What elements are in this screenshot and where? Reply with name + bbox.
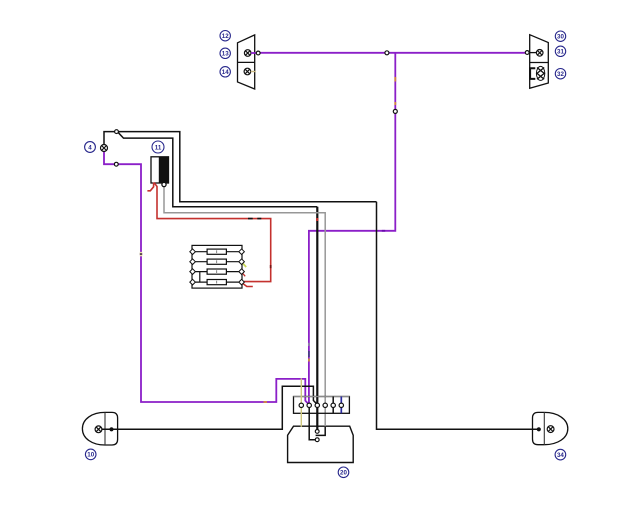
lamp 14 (bulb symbol) [244,68,251,75]
wire: yellow terminal1 to housing [300,378,302,427]
terminal 6 stub (blue) [340,397,342,414]
wire: black lamp10 to terminal 3 [102,386,317,429]
label 30 [555,31,565,41]
fuse F1 [195,249,238,254]
fuse box frame [192,245,242,288]
label 32 [555,69,565,79]
wire: red stub at fuse 4 [243,283,253,286]
label 10 [85,449,96,460]
wire: purple from switch 4 (jog path) [104,152,309,405]
svg-text:30: 30 [557,34,564,41]
wire: red stub at relay [147,183,153,191]
lamp 31 (bulb symbol) [536,50,543,57]
wire lamp13 to connector [251,52,256,54]
headlamp 10 body [82,412,117,445]
label 34 [555,449,566,460]
label 31 [555,46,565,56]
terminal 6 [339,403,343,407]
switch pin B [315,438,319,442]
svg-text:12: 12 [222,33,229,40]
label 13 [220,48,230,58]
wire: red stub at fuse 3 [242,272,246,276]
label 12 [220,31,230,41]
lamp 13 (bulb symbol) [244,50,251,57]
wire: terminal4 branch inside housing [316,426,326,435]
connector circle left cluster [256,51,260,55]
lamp cluster left housing (trapezoid) [238,35,255,89]
wire stub lamp14 (tan) [251,71,256,73]
switch pin A [315,430,319,434]
fuse box internal link rows 3-4 [199,272,201,283]
connector circle switch4 bottom [114,162,118,166]
wire: purple top run between clusters [260,52,526,54]
lamp 34 bulb symbol [547,426,554,433]
svg-text:10: 10 [87,452,94,459]
connector circle switch4 top [115,130,119,134]
svg-text:34: 34 [557,452,564,459]
terminal 4 [323,403,327,407]
wire: black drop to lamp 34 [377,202,539,429]
wire: gray relay to terminal 4 [164,187,325,427]
label 14 [220,67,230,77]
headlamp 34 body [533,412,568,444]
wire: black terminal2 to pin B [309,405,315,440]
svg-text:31: 31 [557,49,564,56]
terminal 5 [331,403,335,407]
wire lamp31 to connector [529,52,536,54]
label 4 [85,142,96,153]
wire: black outer (switch 4 to lamp 34 drop) [104,132,377,202]
svg-text:11: 11 [155,144,162,151]
wire: red relay to fuse 4 [154,183,271,283]
terminal 1 [299,403,303,407]
terminal 2 [307,403,311,407]
connector circle on purple drop [393,109,397,113]
svg-text:4: 4 [88,144,92,151]
junction circle on purple top run [385,51,389,55]
connector circle right cluster [525,51,529,55]
switch housing 20 [288,426,354,462]
svg-text:20: 20 [340,470,347,477]
switch 4 symbol [101,145,108,152]
relay 11 body [151,157,169,183]
fuse F2 [195,259,238,264]
wire: black inner (switch 4 to terminal 3) [118,132,317,207]
relay 11 terminal [162,182,166,186]
svg-text:13: 13 [222,51,229,58]
fuse terminals (diamonds) [190,249,245,285]
fuse F4 [195,280,238,285]
terminal 5 stub [332,397,334,414]
label 20 [338,467,349,478]
wire: yellow-green stub at fuse 2 [242,263,246,268]
wire: purple main drop (junction to terminal 2) [309,53,395,404]
fuse F3 [195,269,238,274]
wire colour ticks [141,77,395,402]
wire: black thick drop to terminal 3 and pin A [316,207,318,430]
connector block X1 [294,397,350,414]
svg-text:14: 14 [222,69,229,76]
lamp cluster right housing (trapezoid) [530,35,549,89]
lamp 10 bulb symbol [95,426,102,433]
label 11 [152,141,164,153]
junction dot lamp 34 [537,427,541,431]
junction dot lamp 10 [109,427,113,431]
lamp 32 (dual filament bulb) [530,66,545,80]
svg-text:32: 32 [557,71,564,78]
terminal 3 [315,403,319,407]
